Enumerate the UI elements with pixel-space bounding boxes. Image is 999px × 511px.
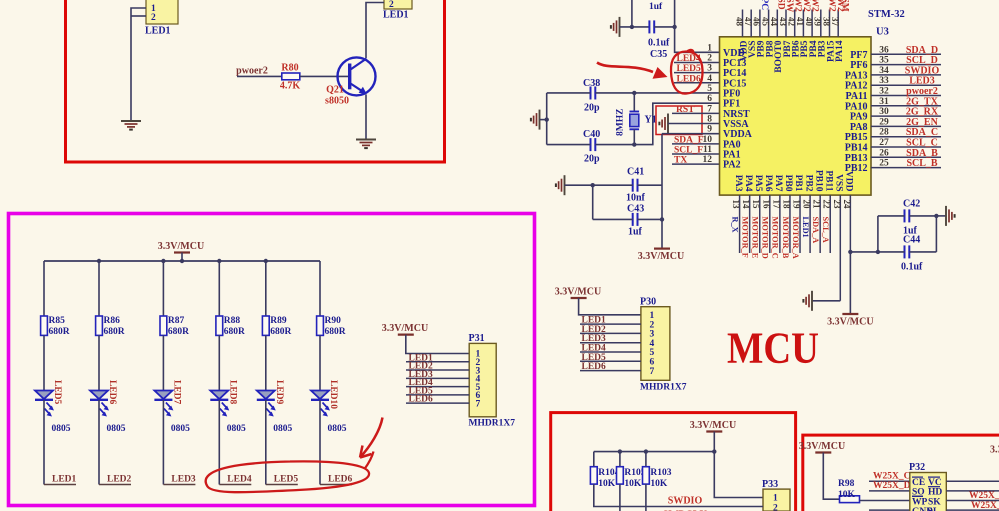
node TX pin 12 — [672, 156, 720, 166]
wire branch 6 mid — [319, 335, 321, 390]
pin names bottom (rotated) — [733, 170, 854, 192]
svg-text:PB14: PB14 — [845, 143, 868, 154]
svg-text:29: 29 — [879, 117, 889, 127]
wire power to R98 — [823, 453, 839, 500]
svg-text:12: 12 — [703, 155, 713, 165]
svg-text:s8050: s8050 — [325, 96, 349, 107]
connector LED1 (left, 2-pin) — [145, 0, 178, 37]
wire power to P30 pin1 — [579, 298, 641, 315]
annotation arrow to LED5 — [597, 63, 653, 73]
svg-text:SDA_A: SDA_A — [811, 217, 820, 244]
wire node LED5 to P31 pin 6 — [406, 386, 469, 396]
svg-text:2G_EN: 2G_EN — [906, 117, 938, 128]
svg-text:SWDIO: SWDIO — [668, 496, 703, 507]
svg-text:SM: SM — [840, 0, 850, 12]
svg-text:20: 20 — [802, 200, 812, 210]
label R104 10K — [598, 468, 619, 489]
svg-text:25: 25 — [879, 159, 889, 169]
svg-text:0805: 0805 — [227, 424, 246, 434]
svg-text:LED6: LED6 — [409, 395, 434, 405]
connector LED1 (right, partial) — [383, 0, 412, 21]
annotation box around RST — [656, 106, 702, 135]
svg-text:0805: 0805 — [107, 424, 126, 434]
crystal Y1 8MHZ — [630, 93, 640, 145]
pin names top (rotated) — [739, 40, 845, 72]
svg-text:7: 7 — [476, 399, 481, 409]
wire node LED2 to P31 pin 3 — [406, 362, 469, 372]
svg-text:3: 3 — [707, 64, 712, 74]
svg-text:R80: R80 — [281, 63, 298, 74]
svg-text:15: 15 — [751, 200, 761, 210]
power 3.3V/MCU P-flash — [799, 441, 845, 453]
svg-text:10K: 10K — [624, 479, 642, 489]
svg-text:3.3V/MCU: 3.3V/MCU — [382, 323, 428, 334]
svg-text:U3: U3 — [876, 27, 889, 38]
power 3.3V/MCU P-vdd — [827, 314, 873, 328]
ground G-vssa — [659, 113, 668, 133]
svg-text:W25X_C: W25X_C — [969, 491, 999, 501]
svg-text:TX: TX — [674, 156, 687, 166]
svg-text:MHDR1X7: MHDR1X7 — [640, 383, 687, 393]
wire node LED5 to P30 pin 6 — [580, 353, 641, 363]
resistor R104 — [590, 467, 597, 484]
wire P32 right row 2 — [946, 490, 999, 492]
svg-text:27: 27 — [879, 138, 889, 148]
pins top 37-48 — [734, 10, 840, 37]
svg-text:MOTOR_A: MOTOR_A — [791, 217, 800, 259]
wire conn to collector — [366, 3, 384, 59]
svg-text:LED6: LED6 — [107, 380, 117, 405]
svg-text:0805: 0805 — [52, 424, 71, 434]
svg-text:LED2: LED2 — [107, 475, 132, 485]
wire branch 2 mid — [98, 335, 100, 390]
wire loop verticals — [877, 216, 879, 252]
svg-text:MOTOR_D: MOTOR_D — [761, 217, 770, 259]
ground G1 — [121, 121, 141, 130]
svg-text:SDA_B: SDA_B — [906, 148, 938, 159]
svg-text:SW: SW — [784, 0, 794, 13]
svg-text:SDA_D: SDA_D — [906, 45, 938, 56]
svg-text:SK: SK — [928, 497, 941, 507]
svg-text:11: 11 — [703, 145, 712, 155]
svg-text:PA11: PA11 — [845, 91, 867, 102]
svg-text:20p: 20p — [584, 154, 600, 165]
node SCL_C pin 27 — [871, 138, 941, 149]
node SCL_B pin 25 — [871, 158, 941, 169]
svg-text:LED10: LED10 — [328, 380, 338, 409]
svg-text:3.3V/MCU: 3.3V/MCU — [690, 420, 736, 431]
wire pin24 VDD rail — [849, 252, 851, 314]
wire R98 to P32 WP — [860, 500, 910, 502]
svg-text:36: 36 — [879, 45, 889, 55]
node LED5 — [266, 475, 299, 485]
wire node LED1 to P31 pin 2 — [406, 353, 469, 363]
wire R105 top — [619, 452, 621, 467]
svg-text:3.3V/MCU: 3.3V/MCU — [799, 441, 845, 452]
wire branch 1 mid — [43, 335, 45, 390]
node SCL_F pin 11 — [672, 146, 720, 156]
LED diode LED7 — [154, 391, 173, 417]
LED diode LED10 — [311, 391, 330, 417]
svg-text:MOTOR_C: MOTOR_C — [771, 217, 780, 259]
node SDA_B pin 26 — [871, 148, 941, 159]
svg-text:0805: 0805 — [328, 424, 347, 434]
svg-text:2: 2 — [707, 53, 712, 63]
wire R80 to base — [300, 75, 348, 77]
svg-text:LED1: LED1 — [801, 217, 810, 238]
wire node LED6 to P31 pin 7 — [406, 395, 469, 405]
svg-text:LED5: LED5 — [274, 475, 299, 485]
svg-text:C38: C38 — [583, 78, 600, 89]
node LED4 — [219, 475, 252, 485]
label R88 680R — [224, 316, 245, 337]
svg-text:PA8: PA8 — [850, 122, 868, 133]
node pwoer2 pin 32 — [871, 86, 941, 97]
ground G-vss — [803, 291, 812, 311]
junction node branch 5 — [264, 259, 268, 263]
junction node branch 4 — [217, 259, 221, 263]
svg-text:SI: SI — [928, 507, 937, 511]
connector P31 — [469, 333, 516, 429]
capacitor C44 — [905, 245, 910, 258]
node SDA_F pin 10 — [672, 135, 720, 145]
wire VDDA rail — [662, 133, 720, 135]
svg-text:SCL_A: SCL_A — [821, 217, 830, 243]
svg-text:3.3: 3.3 — [990, 445, 999, 456]
annotation arrow to nets — [360, 418, 383, 458]
wire R105 R103 down — [619, 484, 621, 511]
label R87 680R — [168, 316, 189, 337]
svg-text:2: 2 — [773, 504, 778, 511]
junction node branch 2 — [97, 259, 101, 263]
resistor R80 — [282, 73, 300, 80]
svg-text:2: 2 — [151, 13, 156, 23]
svg-text:LED3: LED3 — [909, 76, 935, 87]
svg-text:C43: C43 — [627, 204, 644, 215]
bus wire — [44, 260, 320, 262]
wire C40 row — [547, 144, 591, 146]
wire node LED1 to P30 pin 2 — [580, 316, 641, 326]
power 3.3V/MCU P-p30 — [555, 287, 601, 299]
svg-text:PA9: PA9 — [850, 112, 868, 123]
svg-text:18: 18 — [781, 200, 791, 210]
svg-text:0.1uf: 0.1uf — [901, 262, 923, 273]
svg-text:SDA_C: SDA_C — [906, 127, 938, 138]
svg-text:LED5: LED5 — [52, 380, 62, 405]
pin names right — [845, 50, 868, 174]
svg-text:680R: 680R — [104, 327, 125, 337]
wire P32 right row 1 — [946, 480, 999, 482]
wire node LED4 to P30 pin 5 — [580, 344, 641, 354]
svg-text:21: 21 — [812, 200, 822, 210]
node LED1 — [44, 475, 77, 485]
wire to ground right — [936, 215, 946, 217]
resistor R87 — [160, 316, 167, 335]
pin names left — [723, 48, 753, 171]
svg-text:SCL_C: SCL_C — [906, 138, 938, 149]
svg-text:680R: 680R — [325, 327, 346, 337]
svg-text:7: 7 — [707, 104, 712, 114]
svg-text:PB11: PB11 — [823, 170, 833, 191]
node SDA_D pin 36 — [871, 45, 941, 56]
svg-text:MHDR1X7: MHDR1X7 — [469, 419, 516, 429]
node LED3 — [163, 475, 196, 485]
svg-text:23: 23 — [832, 200, 842, 210]
svg-text:10: 10 — [703, 135, 713, 145]
svg-text:680R: 680R — [168, 327, 189, 337]
svg-text:LED5: LED5 — [677, 64, 702, 74]
svg-text:R87: R87 — [168, 316, 185, 326]
svg-text:3.3V/MCU: 3.3V/MCU — [158, 241, 204, 252]
svg-text:W2: W2 — [793, 0, 803, 12]
wire decoupling loop — [850, 251, 878, 253]
resistor R86 — [96, 316, 103, 335]
svg-text:W2: W2 — [801, 0, 811, 12]
svg-text:PA5: PA5 — [753, 175, 763, 192]
power 3.3V/MCU P-p31 — [382, 323, 428, 335]
group border box (magenta, LED array) — [9, 214, 535, 506]
svg-text:PA3: PA3 — [733, 175, 743, 192]
resistor R89 — [262, 316, 269, 335]
svg-text:3.3V/MCU: 3.3V/MCU — [827, 317, 873, 328]
svg-text:34: 34 — [879, 66, 889, 76]
node LED6 pin 4 — [674, 74, 720, 84]
wire branch 6 top — [319, 261, 321, 316]
svg-text:6: 6 — [707, 94, 712, 104]
svg-text:PB13: PB13 — [845, 153, 868, 164]
svg-text:W2: W2 — [827, 0, 837, 12]
svg-text:17: 17 — [771, 200, 781, 210]
wire pullup bus — [594, 451, 715, 453]
svg-text:PB2: PB2 — [803, 175, 813, 192]
wire GND row left — [869, 509, 910, 511]
capacitor C40 — [591, 138, 596, 151]
node 2G_TX pin 31 — [871, 96, 941, 107]
svg-text:4.7K: 4.7K — [280, 81, 301, 92]
svg-text:CE: CE — [912, 478, 925, 488]
svg-text:1uf: 1uf — [903, 226, 918, 237]
pin numbers left 1-12 — [703, 43, 713, 165]
svg-text:PA6: PA6 — [763, 175, 773, 192]
svg-text:pwoer2: pwoer2 — [236, 66, 268, 77]
resistor R88 — [216, 316, 223, 335]
wire branch 3 top — [162, 261, 164, 316]
svg-text:24: 24 — [842, 200, 852, 210]
svg-text:35: 35 — [879, 56, 889, 66]
svg-text:PA13: PA13 — [845, 70, 868, 81]
svg-text:PB0: PB0 — [783, 175, 793, 192]
partial top net labels — [759, 0, 850, 13]
svg-text:R89: R89 — [270, 316, 287, 326]
svg-text:SDA_F: SDA_F — [674, 135, 704, 145]
svg-text:R103: R103 — [650, 468, 671, 478]
svg-text:PF6: PF6 — [850, 60, 867, 71]
node 2G_RX pin 30 — [871, 107, 941, 118]
wire branch 3 mid — [162, 335, 164, 390]
svg-text:33: 33 — [879, 76, 889, 86]
svg-text:MOTOR_F: MOTOR_F — [740, 217, 749, 258]
svg-text:0805: 0805 — [273, 424, 292, 434]
svg-text:16: 16 — [761, 200, 771, 210]
pins bottom 13-24 — [731, 195, 852, 301]
wire branch 2 top — [98, 261, 100, 316]
LED diode LED5 — [35, 391, 54, 417]
wire branch 4 top — [218, 261, 220, 316]
connector P33 — [762, 479, 790, 511]
wire branch 1 top — [43, 261, 45, 316]
svg-text:SCL_B: SCL_B — [906, 158, 937, 169]
svg-text:PA4: PA4 — [743, 175, 753, 192]
svg-text:R98: R98 — [838, 479, 855, 489]
svg-text:680R: 680R — [224, 327, 245, 337]
svg-text:LED6: LED6 — [677, 74, 702, 84]
wire branch 2 bottom — [98, 400, 100, 485]
wire node LED6 to P30 pin 7 — [580, 362, 641, 372]
wire ground to pin8 VSSA — [668, 122, 720, 124]
svg-text:2: 2 — [389, 0, 394, 10]
svg-text:PB15: PB15 — [845, 132, 868, 143]
ground G-C41 — [556, 175, 565, 195]
wire node LED3 to P31 pin 4 — [406, 370, 469, 380]
LED diode LED8 — [210, 391, 229, 417]
svg-text:48: 48 — [734, 17, 744, 27]
svg-text:1uf: 1uf — [628, 227, 643, 238]
svg-text:R86: R86 — [104, 316, 121, 326]
ground G-C35 — [611, 17, 620, 37]
svg-text:28: 28 — [879, 128, 889, 138]
wire branch 5 top — [265, 261, 267, 316]
svg-text:7: 7 — [650, 367, 655, 377]
svg-text:30: 30 — [879, 107, 889, 117]
svg-text:PA14: PA14 — [835, 40, 845, 62]
power 3.3V/MCU P-ledbus — [158, 241, 204, 253]
power 3.3V/MCU P-vdda — [638, 249, 684, 263]
svg-text:PF7: PF7 — [850, 50, 867, 61]
junction node branch 3 — [161, 259, 165, 263]
capacitor C43 — [633, 213, 638, 226]
node SCL_D pin 35 — [871, 55, 941, 66]
svg-text:STM-32: STM-32 — [868, 9, 905, 20]
resistor R85 — [41, 316, 48, 335]
svg-text:pwoer2: pwoer2 — [906, 86, 938, 97]
node LED2 — [99, 475, 132, 485]
svg-text:1: 1 — [707, 43, 712, 53]
svg-text:P33: P33 — [762, 479, 778, 490]
capacitor C42 — [905, 209, 910, 222]
group border box (red, flash) — [803, 435, 999, 511]
label C35 0.1uf — [648, 38, 670, 61]
power 3.3V/MCU P-swd — [690, 420, 736, 432]
wire emitter to ground — [365, 95, 367, 140]
capacitor C41 — [633, 179, 638, 192]
label R89 680R — [270, 316, 291, 337]
node SWDIO — [594, 484, 763, 506]
resistor R105 — [617, 467, 624, 484]
annotation ellipse around LED4-6 nets — [206, 452, 374, 493]
node 2G_EN pin 29 — [871, 117, 941, 128]
group border box (red, top-left LED driver) — [66, 0, 445, 162]
svg-text:3.3V/MCU: 3.3V/MCU — [555, 287, 601, 298]
svg-text:LED8: LED8 — [227, 380, 237, 405]
svg-text:LED1: LED1 — [52, 475, 77, 485]
svg-text:31: 31 — [879, 97, 889, 107]
wire branch 5 mid — [265, 335, 267, 390]
svg-text:680R: 680R — [49, 327, 70, 337]
wire branch 5 bottom — [265, 400, 267, 485]
annotation ellipse around LED4-6 pins — [671, 50, 703, 94]
LED diode LED9 — [257, 391, 276, 417]
svg-text:1uf: 1uf — [649, 2, 663, 12]
wire node LED3 to P30 pin 4 — [580, 334, 641, 344]
wire pin23 VSS to ground — [812, 300, 840, 302]
capacitor C38 — [591, 86, 596, 99]
svg-text:3.3V/MCU: 3.3V/MCU — [638, 251, 684, 262]
wire power to P33 pin1 — [714, 452, 763, 498]
ground G-xtal — [531, 110, 540, 130]
svg-text:C35: C35 — [650, 49, 667, 60]
svg-text:LED7: LED7 — [171, 380, 181, 405]
svg-text:SWDIO: SWDIO — [905, 65, 940, 76]
svg-text:20p: 20p — [584, 103, 600, 114]
wire C35 to pin1 VDD — [675, 0, 720, 52]
wire C38 row — [547, 92, 591, 94]
ground G-C42 — [946, 206, 955, 226]
svg-text:PA2: PA2 — [723, 160, 741, 171]
svg-text:LED3: LED3 — [171, 475, 196, 485]
svg-text:MOTOR_E: MOTOR_E — [751, 217, 760, 259]
svg-text:SCL_D: SCL_D — [906, 55, 938, 66]
svg-text:2G_TX: 2G_TX — [906, 96, 938, 107]
svg-text:0.1uf: 0.1uf — [648, 38, 670, 49]
label R90 680R — [325, 316, 346, 337]
svg-text:10nf: 10nf — [626, 193, 646, 204]
node LED6 — [320, 475, 353, 485]
svg-text:10K: 10K — [598, 479, 616, 489]
svg-text:W2: W2 — [810, 0, 820, 12]
svg-text:WP: WP — [912, 497, 928, 507]
wire node LED2 to P30 pin 3 — [580, 325, 641, 335]
svg-text:PC: PC — [759, 0, 769, 10]
node LED3 pin 33 — [871, 76, 941, 87]
svg-text:VSS: VSS — [834, 174, 844, 191]
svg-text:R88: R88 — [224, 316, 241, 326]
svg-text:14: 14 — [741, 200, 751, 210]
wire branch 3 bottom — [162, 400, 164, 485]
svg-text:5: 5 — [707, 84, 712, 94]
node SDA_C pin 28 — [871, 127, 941, 138]
wire power to P31 pin1 — [406, 335, 469, 354]
svg-text:PA12: PA12 — [845, 81, 868, 92]
svg-text:26: 26 — [879, 148, 889, 158]
connector P30 — [640, 297, 687, 393]
node W25X_DO — [869, 481, 918, 491]
group border box (red, SWD) — [551, 413, 796, 511]
svg-text:PA10: PA10 — [845, 101, 868, 112]
LED diode LED6 — [90, 391, 109, 417]
label R86 680R — [104, 316, 125, 337]
resistor R90 — [317, 316, 324, 335]
wire pwoer2 to R80 — [237, 75, 282, 77]
svg-text:2G_RX: 2G_RX — [906, 107, 939, 118]
svg-text:LED6: LED6 — [582, 362, 607, 372]
transistor Q21 s8050 (NPN) — [338, 57, 376, 95]
svg-text:C41: C41 — [627, 167, 644, 178]
wire R104 top — [593, 452, 595, 467]
svg-text:LED1: LED1 — [383, 10, 409, 21]
wire R103 top — [645, 452, 647, 467]
svg-text:8: 8 — [707, 114, 712, 124]
resistor R98 — [840, 496, 860, 503]
